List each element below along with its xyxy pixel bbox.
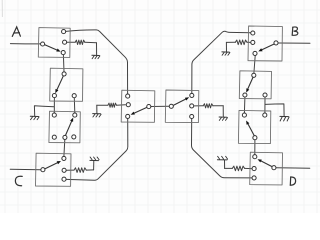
wire: right-column ground tap — [265, 104, 284, 116]
ground: above R6 — [217, 159, 227, 161]
wire: S9 bottom contact down to S10 — [254, 140, 256, 155]
wire: terminal A lead — [10, 43, 40, 45]
wire: S6 top contact up to S7 (node B side top feed) — [192, 31, 251, 93]
switch S7 (node B input selector) — [248, 26, 282, 61]
wire: left-column ground tap — [34, 106, 54, 116]
resistor R5 (center-right branch) — [195, 105, 204, 107]
wire: terminal D lead — [276, 167, 310, 170]
node A label — [12, 27, 20, 37]
wire: S7 bottom contact down to S8 — [254, 56, 255, 74]
resistor R6 (node D branch) — [245, 167, 252, 169]
switch S2 (left column upper) — [50, 68, 83, 101]
ground: left column — [30, 115, 38, 117]
wire: S4 bottom contact to center-left switch S5 (bottom feed) — [66, 119, 128, 181]
wire: R1 to ground stem — [96, 43, 98, 55]
wire: R3 to ground stem (upward) — [93, 161, 95, 170]
wire: S3 bottom contact down to S4 — [63, 140, 66, 157]
node D label — [290, 177, 295, 185]
resistor R3 (node C branch) — [67, 169, 74, 171]
switch S1 (node A input selector) — [38, 28, 70, 58]
ground: below R1 — [92, 54, 99, 56]
wire: R2 to ground stem — [96, 105, 98, 113]
ground: below R2 — [93, 113, 101, 115]
switch S6 (center right) — [165, 90, 199, 123]
switch S9 (right column lower) — [238, 110, 270, 143]
switch S10 (node D input selector) — [250, 152, 283, 185]
wire: S1 top contact to center-left switch S5 (top feed) — [66, 30, 128, 94]
wire: S2 lower-right contact down to S3 upper-right — [73, 98, 76, 113]
ground: right column — [280, 115, 289, 117]
node B label — [292, 27, 298, 35]
switch S5 (center left) — [121, 90, 155, 122]
resistor R2 (center-left branch) — [117, 104, 126, 106]
wire: S8 lower-left contact down to S9 upper-left — [243, 97, 246, 113]
wire: S2 lower-left contact down to S3 upper-left — [53, 98, 55, 113]
wire: R5 to ground stem — [222, 106, 224, 117]
wire: S8 lower-right contact down to S9 upper-right — [264, 97, 266, 113]
wire: S1 bottom contact down to S2 — [62, 55, 65, 72]
wire: S6 bottom contact down to S10 (bottom feed) — [192, 119, 252, 178]
ground: below R4 — [222, 51, 229, 53]
resistor R1 (node A branch) — [67, 41, 75, 43]
wire: R4 to ground stem — [225, 42, 227, 51]
wire: terminal C lead — [10, 168, 41, 171]
wire: R6 to ground stem (upward) — [224, 160, 226, 168]
switch S4 (node C input selector) — [36, 153, 72, 186]
wire: S5 to S6 link — [151, 105, 169, 107]
switch S8 (right column upper) — [239, 71, 271, 99]
resistor R4 (node B branch) — [247, 41, 250, 43]
ground: below R5 — [219, 116, 227, 118]
node C label — [15, 176, 22, 186]
wire: terminal B lead — [278, 42, 310, 44]
switch S3 (left column lower) — [49, 111, 80, 143]
ground: above R3 — [90, 159, 99, 161]
